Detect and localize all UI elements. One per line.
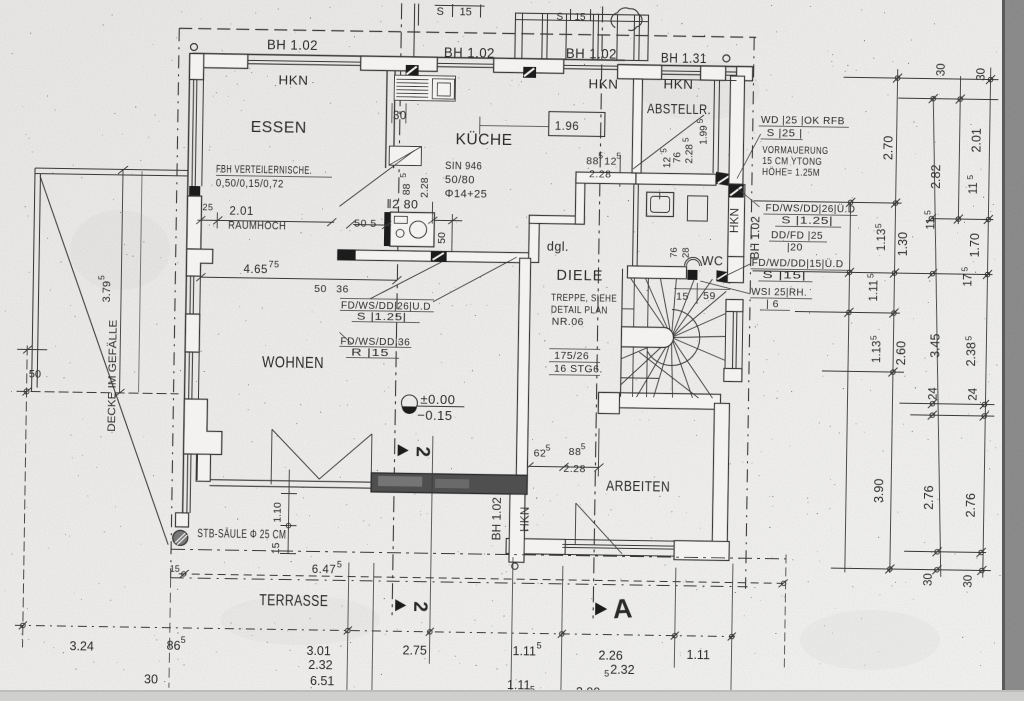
right chain rotated numbers xyxy=(861,62,988,588)
top wall pier 4 xyxy=(701,66,726,80)
svg-text:NR.06: NR.06 xyxy=(552,316,584,329)
dim line 4.65 xyxy=(196,273,401,284)
svg-text:16 STG6.: 16 STG6. xyxy=(554,363,603,376)
window inner face lines xyxy=(196,72,746,557)
stair treads radial xyxy=(621,278,727,399)
svg-text:2.32: 2.32 xyxy=(610,663,635,677)
left wall L pier xyxy=(186,249,212,276)
roller shutter mark 1 xyxy=(406,65,419,76)
svg-text:24: 24 xyxy=(968,387,980,401)
wall essen-kueche partition xyxy=(386,71,388,168)
stair table lines xyxy=(549,348,600,351)
top wall step segment abstellraum xyxy=(618,65,753,67)
svg-text:ESSEN: ESSEN xyxy=(251,119,307,137)
svg-text:30: 30 xyxy=(976,68,988,81)
right dim chain verticals xyxy=(845,65,991,577)
corner circle top-left xyxy=(190,43,197,50)
svg-text:12: 12 xyxy=(604,155,617,167)
tick 88 12 dim xyxy=(619,155,622,187)
svg-text:88: 88 xyxy=(586,155,599,167)
svg-text:30: 30 xyxy=(393,110,407,122)
window W5 glazing xyxy=(726,71,737,73)
boundary dashed left xyxy=(171,28,180,577)
svg-text:Φ14+25: Φ14+25 xyxy=(445,188,488,201)
section line 2-2 xyxy=(392,3,402,615)
roller shutter mark 2 xyxy=(523,67,536,78)
stair enclosure left line xyxy=(621,269,623,397)
svg-text:2.32: 2.32 xyxy=(308,658,333,672)
svg-text:KÜCHE: KÜCHE xyxy=(455,130,512,149)
svg-text:±0.00: ±0.00 xyxy=(420,392,455,408)
svg-text:WSI 25|RH.: WSI 25|RH. xyxy=(751,286,807,299)
svg-text:S |25 |: S |25 | xyxy=(767,127,803,140)
chimney dim line top xyxy=(413,3,416,56)
svg-text:| 6: | 6 xyxy=(766,298,779,310)
wd table lines xyxy=(759,126,849,127)
column stb-saeule hatched xyxy=(173,530,188,545)
svg-text:2.60: 2.60 xyxy=(894,341,908,366)
svg-text:dgl.: dgl. xyxy=(547,240,569,254)
svg-text:BH 1.02: BH 1.02 xyxy=(267,37,318,53)
svg-text:1.70: 1.70 xyxy=(968,233,982,258)
right dim ticks xyxy=(840,73,995,575)
svg-text:2.75: 2.75 xyxy=(402,643,427,657)
svg-text:2.76: 2.76 xyxy=(922,485,936,510)
terrace dim line 3.79 xyxy=(114,166,128,397)
left 1.10 15 dim lines xyxy=(280,469,297,553)
overhang dash-dot line terrace xyxy=(171,549,786,559)
wohnen east wall xyxy=(516,258,530,475)
svg-text:88: 88 xyxy=(401,183,413,195)
abstellraum east wall thin xyxy=(713,80,714,173)
svg-text:2.26: 2.26 xyxy=(598,648,623,662)
corner leg bottom left xyxy=(196,454,210,481)
svg-text:5: 5 xyxy=(960,266,970,271)
bottom dim labels row2 xyxy=(144,655,635,701)
svg-text:5: 5 xyxy=(873,223,883,228)
bottom dim ticks xyxy=(19,621,736,640)
left wall pier 3 xyxy=(185,314,200,352)
faint scan stains xyxy=(70,60,940,670)
dim line 2.01 raumhoch xyxy=(196,212,336,230)
svg-text:3.24: 3.24 xyxy=(69,639,94,653)
section marker 2 mid xyxy=(398,444,433,457)
svg-text:5: 5 xyxy=(546,443,551,453)
dim line 6.47 dashed xyxy=(179,574,784,584)
svg-text:1.30: 1.30 xyxy=(896,232,910,257)
svg-text:76: 76 xyxy=(669,247,680,258)
right wall wc section xyxy=(728,184,745,256)
svg-text:S |1.25|: S |1.25| xyxy=(781,214,833,227)
svg-text:15: 15 xyxy=(676,291,689,303)
svg-text:DD/FD |25: DD/FD |25 xyxy=(771,229,823,242)
kitchen door jamb black xyxy=(384,212,391,246)
svg-text:HKN: HKN xyxy=(278,72,308,87)
svg-text:50/80: 50/80 xyxy=(445,174,475,186)
svg-text:WD |25 |OK RFB: WD |25 |OK RFB xyxy=(761,114,845,127)
left wall pier 2 xyxy=(187,196,202,249)
right scanner band xyxy=(1004,0,1024,701)
svg-text:3.45: 3.45 xyxy=(928,333,942,358)
svg-text:11: 11 xyxy=(925,218,937,230)
wc west wall thin xyxy=(633,184,634,266)
svg-text:2.28: 2.28 xyxy=(419,177,431,198)
svg-text:DIELE: DIELE xyxy=(556,268,603,285)
kitchen east wall step xyxy=(529,215,540,262)
svg-text:30: 30 xyxy=(923,573,935,586)
left wall top pier xyxy=(189,53,203,79)
stair bottom wall / arbeiten top wall xyxy=(598,392,720,409)
svg-text:62: 62 xyxy=(534,447,547,459)
svg-text:5: 5 xyxy=(659,148,668,153)
pier T junction xyxy=(618,65,662,80)
svg-text:1.11: 1.11 xyxy=(868,280,880,302)
level marker symbol xyxy=(401,395,464,415)
svg-text:1.96: 1.96 xyxy=(555,121,580,133)
svg-text:76: 76 xyxy=(672,152,683,164)
svg-text:DETAIL PLAN: DETAIL PLAN xyxy=(551,304,608,317)
dim lines arbeiten door xyxy=(524,427,604,476)
svg-text:3.90: 3.90 xyxy=(872,479,886,504)
window WL4 glazing xyxy=(186,454,189,513)
folding door V symbol xyxy=(271,429,372,486)
terrace roof outline top edge xyxy=(35,168,188,170)
svg-text:A: A xyxy=(612,593,633,624)
svg-text:59: 59 xyxy=(703,290,716,302)
svg-text:2: 2 xyxy=(412,446,433,457)
window WL3 glazing xyxy=(188,352,191,399)
bottom dim row line xyxy=(15,625,735,636)
svg-text:1.11: 1.11 xyxy=(686,648,710,662)
fbh niche rect xyxy=(389,146,421,166)
wall kueche-wohnen with thresholds xyxy=(338,250,529,263)
window W4 glazing xyxy=(662,70,701,73)
svg-text:17: 17 xyxy=(962,274,974,287)
arbeiten east wall xyxy=(712,403,729,549)
svg-text:15: 15 xyxy=(270,542,282,554)
svg-text:5: 5 xyxy=(868,335,878,340)
svg-text:1.13: 1.13 xyxy=(871,341,883,364)
window WL1 glazing xyxy=(192,79,194,186)
svg-text:6.47: 6.47 xyxy=(312,564,337,576)
svg-text:‖2 80: ‖2 80 xyxy=(386,199,418,212)
balcony structure above top wall xyxy=(515,13,649,61)
wohnen south dark wall bar xyxy=(371,473,527,494)
svg-text:5: 5 xyxy=(922,210,932,215)
svg-text:S: S xyxy=(556,12,563,23)
boundary dashed right xyxy=(746,37,755,588)
underline fbh xyxy=(216,175,332,177)
svg-text:50 5: 50 5 xyxy=(354,218,377,230)
right fd table lines xyxy=(763,214,857,215)
window W1 glazing xyxy=(248,60,361,62)
svg-text:2.82: 2.82 xyxy=(929,164,943,189)
svg-text:TERRASSE: TERRASSE xyxy=(259,592,328,610)
left wall bottom stub xyxy=(175,513,188,527)
svg-text:5: 5 xyxy=(682,137,691,142)
svg-text:1.10: 1.10 xyxy=(272,502,284,523)
svg-text:15 CM YTONG: 15 CM YTONG xyxy=(762,156,822,168)
kitchen 30 dim xyxy=(392,103,406,123)
top wall pier 2 xyxy=(361,56,438,71)
svg-text:0,50/0,15/0,72: 0,50/0,15/0,72 xyxy=(216,177,284,190)
boundary dashed top xyxy=(179,28,756,37)
svg-text:24: 24 xyxy=(928,387,940,401)
abstellraum west wall xyxy=(632,79,642,173)
svg-text:15: 15 xyxy=(459,6,471,18)
wc door arc xyxy=(685,257,702,266)
svg-text:2: 2 xyxy=(409,601,430,612)
svg-text:15: 15 xyxy=(170,564,180,574)
window WL2 glazing xyxy=(189,276,192,314)
svg-text:FBH VERTEILERNISCHE.: FBH VERTEILERNISCHE. xyxy=(216,163,312,177)
svg-text:HKN: HKN xyxy=(727,208,741,234)
abstellraum door swing diagonal xyxy=(633,114,704,170)
kitchen door diagonal xyxy=(370,261,442,300)
svg-text:2.70: 2.70 xyxy=(881,136,895,161)
svg-text:6.51: 6.51 xyxy=(310,674,335,688)
svg-text:36: 36 xyxy=(336,283,349,295)
wohnen south wall stub below xyxy=(509,494,525,562)
svg-text:5: 5 xyxy=(398,173,408,178)
section marker A bottom xyxy=(595,593,634,625)
svg-text:5: 5 xyxy=(581,441,586,451)
wohnen south window glazing xyxy=(210,480,371,483)
svg-text:2.28: 2.28 xyxy=(589,168,612,180)
table rule lines xyxy=(213,117,859,379)
abstellraum door threshold black xyxy=(716,172,737,187)
svg-text:5: 5 xyxy=(616,151,621,161)
svg-text:5: 5 xyxy=(598,150,603,160)
section marker 2 bottom xyxy=(395,599,430,612)
threshold black left xyxy=(189,186,200,196)
leader lines right xyxy=(339,127,760,350)
bottom scanner band xyxy=(0,692,1024,701)
top small text fragments xyxy=(436,6,586,23)
svg-text:FD/WS/DD|26|Ü.D: FD/WS/DD|26|Ü.D xyxy=(765,202,855,215)
chimney block 1.96 xyxy=(549,112,605,137)
svg-text:BH 1.02: BH 1.02 xyxy=(489,497,504,541)
svg-text:BH 1.02: BH 1.02 xyxy=(566,46,617,62)
arbeiten south wall xyxy=(506,538,565,554)
svg-text:30: 30 xyxy=(144,672,158,686)
svg-text:4.65: 4.65 xyxy=(243,264,268,276)
svg-text:SIN 946: SIN 946 xyxy=(445,160,482,173)
boundary dashed bottom xyxy=(171,578,748,587)
svg-text:88: 88 xyxy=(569,446,582,458)
stair center tongue xyxy=(621,327,673,348)
svg-text:3.01: 3.01 xyxy=(306,644,331,658)
corner circle top-right xyxy=(723,55,730,62)
svg-text:−0.15: −0.15 xyxy=(417,408,453,424)
svg-text:ABSTELLR.: ABSTELLR. xyxy=(647,101,711,117)
svg-text:50: 50 xyxy=(29,368,41,380)
svg-text:175/26: 175/26 xyxy=(554,350,589,363)
room and annotation texts xyxy=(196,36,858,618)
svg-text:5: 5 xyxy=(337,559,343,569)
terrace roof diagonal xyxy=(34,176,174,545)
svg-text:5: 5 xyxy=(965,175,975,180)
svg-text:STB-SÄULE Φ 25 CM: STB-SÄULE Φ 25 CM xyxy=(197,528,286,541)
kitchen washer block xyxy=(390,212,435,247)
svg-text:RAUMHOCH: RAUMHOCH xyxy=(228,220,286,233)
svg-text:3.79: 3.79 xyxy=(101,281,113,303)
svg-text:50: 50 xyxy=(436,232,448,244)
svg-text:5: 5 xyxy=(181,635,186,645)
arbeiten door jamb and swing xyxy=(574,503,577,544)
bottom extension lines xyxy=(169,432,788,698)
svg-text:5: 5 xyxy=(963,336,973,341)
table1 lines xyxy=(340,298,434,299)
small circle at wohnen stub xyxy=(512,563,518,569)
wc toilet xyxy=(687,196,707,221)
svg-text:11: 11 xyxy=(968,182,980,194)
svg-text:30: 30 xyxy=(963,575,975,588)
svg-text:5: 5 xyxy=(604,669,609,679)
svg-text:2.76: 2.76 xyxy=(964,493,978,518)
section line A-A xyxy=(593,6,603,618)
svg-text:WC: WC xyxy=(702,254,724,268)
svg-text:75: 75 xyxy=(268,259,279,269)
svg-text:1.99: 1.99 xyxy=(699,125,710,145)
window W2 glazing xyxy=(437,62,493,65)
svg-text:28: 28 xyxy=(681,247,692,258)
terrace roof outline left edge xyxy=(32,168,36,391)
svg-text:|20: |20 xyxy=(787,241,803,253)
svg-text:ARBEITEN: ARBEITEN xyxy=(606,478,670,496)
svg-text:HÖHE= 1.25M: HÖHE= 1.25M xyxy=(762,166,820,179)
svg-text:5: 5 xyxy=(537,640,542,650)
terrace inner dim line xyxy=(139,171,142,392)
svg-text:2.01: 2.01 xyxy=(969,128,983,153)
abstellraum south wall xyxy=(576,172,636,184)
right dim chain horizontals xyxy=(748,76,1000,571)
left dim chain vertical xyxy=(13,345,180,650)
svg-text:HKN: HKN xyxy=(517,507,531,533)
stair north wall xyxy=(627,266,686,279)
svg-text:1.13: 1.13 xyxy=(876,229,888,252)
window W3 glazing kitchen xyxy=(564,64,618,67)
svg-text:15: 15 xyxy=(574,12,586,23)
kitchen counter cooktop xyxy=(394,75,455,101)
bottom dim labels row1 xyxy=(69,633,710,664)
svg-text:5: 5 xyxy=(696,118,705,123)
svg-text:50: 50 xyxy=(314,283,327,295)
svg-text:BH 1.02: BH 1.02 xyxy=(444,45,495,61)
wc dim line xyxy=(674,288,730,291)
top wall pier 3 xyxy=(494,58,564,73)
left wall big L pier xyxy=(184,399,223,455)
svg-text:S: S xyxy=(436,6,444,18)
top wall outer line xyxy=(193,54,625,61)
wc washbasin xyxy=(646,192,673,216)
svg-text:BH 1.02: BH 1.02 xyxy=(748,216,763,260)
svg-text:BH 1.31: BH 1.31 xyxy=(661,50,707,66)
svg-text:TREPPE, SIEHE: TREPPE, SIEHE xyxy=(551,292,617,305)
svg-text:2.38: 2.38 xyxy=(964,342,978,367)
right wall stair section piers xyxy=(726,299,743,311)
svg-text:25: 25 xyxy=(202,202,213,212)
washer dim lines xyxy=(346,200,463,256)
right exterior wall vormauerung band xyxy=(729,76,745,184)
svg-text:1.11: 1.11 xyxy=(512,644,536,658)
svg-text:5: 5 xyxy=(96,275,106,280)
top wall corner pier xyxy=(193,54,248,69)
svg-text:30: 30 xyxy=(936,63,948,76)
svg-text:2.28: 2.28 xyxy=(563,463,586,475)
svg-text:HKN: HKN xyxy=(588,76,618,91)
essen passage diagonal xyxy=(339,149,414,207)
svg-text:DECKE IM GEFÄLLE: DECKE IM GEFÄLLE xyxy=(106,320,120,432)
svg-text:2.28: 2.28 xyxy=(684,144,695,164)
svg-text:WOHNEN: WOHNEN xyxy=(262,354,324,372)
svg-text:HKN: HKN xyxy=(663,76,693,91)
top wall corner pier right xyxy=(737,67,753,81)
stair lower flight lines xyxy=(621,278,701,398)
table2 lines xyxy=(339,346,411,347)
window stair east glazing xyxy=(731,312,734,369)
rotated texts xyxy=(92,109,764,562)
tree blob top xyxy=(611,8,642,31)
svg-text:86: 86 xyxy=(166,639,180,653)
svg-text:2.01: 2.01 xyxy=(229,206,254,218)
stair winder arc xyxy=(647,309,700,366)
svg-text:5: 5 xyxy=(865,273,875,278)
left wall outer line xyxy=(183,53,190,520)
